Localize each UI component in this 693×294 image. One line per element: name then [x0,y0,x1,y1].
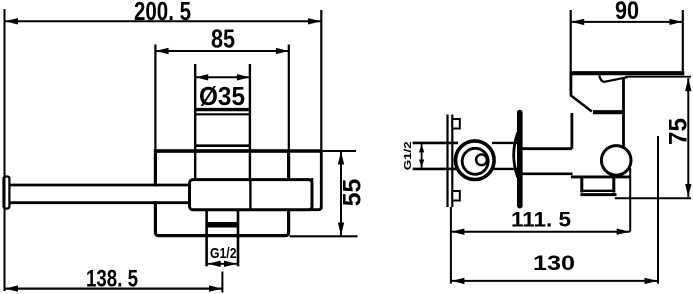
wire ext 75 bottom [615,197,691,199]
aerator top line to ext [571,175,630,178]
wire left ext overlay through cap [4,176,6,209]
handle lever bar [570,71,685,75]
fitting notch circle [476,154,487,165]
dimension 138.5 line [5,288,222,290]
pipe to body bottom line [492,168,517,170]
wire ext 90 left / lever left [570,10,572,71]
spout end cap [4,177,10,209]
pipe inlet top line [413,142,458,145]
dimension 200.5 line [5,20,321,22]
wire ext 55 bottom [290,235,358,237]
svg-text:75: 75 [664,118,692,145]
wire ext 90 right / lever right [682,10,684,71]
svg-text:90: 90 [615,0,639,25]
spout bar top line [6,184,190,187]
svg-text:G1/2: G1/2 [210,245,237,262]
wire right extension / cap right edge [320,10,322,150]
dimension G1/2 arrows [208,263,237,265]
dimension 130 line [451,280,657,282]
wire cartridge side right [249,64,251,180]
body column right edge [622,77,625,148]
wire cartridge side left [194,64,196,180]
bracket tab top [452,119,460,129]
cartridge cap second line [194,113,251,115]
spout bar fill [5,187,189,202]
outlet tube left edge [205,210,208,266]
dimension 90 line [571,21,682,23]
hub seam [249,181,251,210]
bracket tab bottom [452,191,460,201]
spout bar bottom line [6,201,190,204]
flange bar [517,113,523,206]
dimension 75 line [687,78,689,197]
wire ext 85 right [288,45,290,151]
bracket plate left line [446,115,448,208]
body column left edge [571,113,574,149]
cartridge cap top line [194,108,251,111]
svg-text:130: 130 [533,251,575,275]
dimension G1/2 vertical arrows [421,144,423,168]
aerator bottom thick line [580,193,616,196]
bracket plate right line [451,115,453,208]
spout outlet circle [601,146,631,176]
wire left extension line (spout tip datum) [4,9,6,291]
svg-text:111. 5: 111. 5 [511,207,571,231]
cap neck slant [570,95,592,112]
aerator left edge [580,178,583,193]
wire ext 85 left [154,45,156,151]
hub bottom line to cap edge [310,207,321,210]
dimension 55 line [340,152,342,236]
hub end cap strip [311,178,314,209]
pipe right top line [523,147,572,150]
pipe inlet bottom line [413,168,458,171]
cartridge bottom line [194,144,251,147]
wire ext left (wall datum) [450,207,452,284]
body plate (wall box) [155,151,288,236]
outlet tube right edge [237,210,240,266]
wire ext 138.5 right [221,272,223,293]
svg-text:55: 55 [338,179,366,207]
pipe right bottom line [523,173,573,176]
aerator inner line [580,190,615,192]
svg-text:85: 85 [211,24,235,54]
hub cylinder (valve body) [190,180,313,210]
cap neck left edge [570,74,573,96]
wire ext 130 right [657,136,659,284]
aerator right edge [612,178,615,193]
dimension 85 line [156,50,289,52]
dimension 111.5 line [451,231,629,233]
svg-text:G1/2: G1/2 [402,141,414,170]
svg-text:200. 5: 200. 5 [134,0,191,26]
fitting inner circle [462,148,488,174]
fitting outer circle [456,141,495,180]
svg-text:Ø35: Ø35 [199,81,245,111]
pipe to body top line [492,142,517,144]
wire ext 111.5 right [629,168,631,232]
dimension Ø35 line [195,76,250,78]
wire ext 55 top [321,150,356,152]
outlet bottom thick band [207,222,238,228]
flange lens bulge [514,133,518,178]
handle wedge hook [599,75,627,81]
wire ext 75 top [626,76,692,78]
cap neck bottom thick line [593,110,625,114]
svg-text:138. 5: 138. 5 [86,266,138,293]
body top line extended to cap [154,149,321,153]
